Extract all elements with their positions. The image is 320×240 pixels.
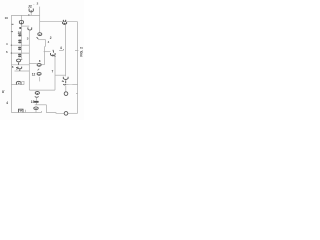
- transistor Q3 mid right: [51, 50, 56, 56]
- mirror cup inner dot: [18, 83, 19, 84]
- svg-text:´: ´: [33, 3, 34, 7]
- wire V4 column: [20, 15, 22, 58]
- diode cup x36 y108.3: [34, 107, 38, 110]
- tick on W1 x28.7: [28, 14, 29, 16]
- wire stub x25.5: [25, 110, 27, 113]
- wire W15 faint middle: [69, 83, 73, 85]
- terminal T1 circle: [64, 92, 68, 96]
- wire J2 stem: [30, 12, 32, 15]
- wire W11: [11, 44, 29, 46]
- wire bottom left rail: [11, 112, 41, 114]
- transistor mirror cup x18.7 y82.6: [16, 81, 21, 84]
- tick on rail y31.5: [11, 31, 13, 32]
- wire V8: [54, 57, 56, 91]
- wire W15 left segment: [66, 83, 69, 85]
- wire W14 collector link: [41, 64, 44, 66]
- transistor circle Q top center x39.8 y34.5: [38, 33, 42, 36]
- label mark near Q4b emitter: [62, 81, 64, 82]
- label tick right of cup1 top: [21, 59, 22, 60]
- wire annotation tick crossing V2 at y50.5: [75, 50, 78, 52]
- transistor cup2 left x19.8 y68.3: [18, 67, 22, 71]
- wire V3: [65, 25, 67, 76]
- wire W8: [55, 74, 66, 76]
- Q5 inner dot: [37, 93, 38, 94]
- transistor Q3 inner dot: [52, 54, 53, 55]
- junction dot near Q3 arrow: [63, 49, 64, 50]
- wire diode stem bottom: [35, 110, 37, 113]
- wire bottom rail end hook: [41, 111, 43, 113]
- wire W13: [29, 62, 37, 64]
- wire Q5 emitter stem: [36, 98, 38, 101]
- transistor Q stack upper x39 y65.5: [37, 63, 41, 66]
- wire W10: [15, 70, 30, 72]
- terminal T2 circle: [64, 112, 68, 116]
- Q stack upper inner dot: [39, 65, 40, 66]
- Q x21 inner dot: [21, 22, 22, 23]
- transistor circle Q5 x37.2 y94.5: [35, 92, 40, 98]
- svg-text:J2: J2: [28, 4, 32, 8]
- wire stub on V2 at y93.5: [76, 93, 78, 95]
- svg-text:2: 2: [50, 36, 52, 40]
- wire upper rail to right: [40, 21, 78, 23]
- diode blob x19.6 y47.5: [18, 47, 21, 49]
- diode blob x19.8 y41.3 lower: [18, 42, 21, 44]
- Q top center inner dot: [39, 34, 40, 35]
- wire W18 bottom right: [68, 112, 78, 114]
- wire W6: [11, 84, 24, 86]
- junction dot rail W12: [11, 52, 12, 53]
- diode blob x19.6 y54.5: [18, 54, 21, 56]
- diode blob x19.6 y56.3: [18, 56, 21, 58]
- wire W15 right segment: [72, 83, 77, 85]
- junction dot rail W11: [11, 45, 12, 46]
- diode blob x19.6 y49.2: [18, 49, 21, 51]
- svg-text:8´: 8´: [2, 90, 5, 94]
- wire stub right of Q3: [59, 50, 63, 52]
- wire W17 bottom center: [46, 112, 64, 115]
- wire V6 center top vertical: [39, 7, 41, 33]
- wire W6 corner up: [22, 81, 25, 84]
- transistor Q4b circle right x65.8 y78.5: [62, 77, 68, 83]
- capacitor bar under Q5: [34, 101, 39, 103]
- transistor Q at x21 y22.2: [19, 20, 23, 24]
- wire top rail: [11, 14, 39, 16]
- transistor circle Q4 top right on W3: [63, 20, 67, 25]
- svg-text:4: 4: [6, 101, 8, 105]
- Q stack lower inner dot: [39, 74, 40, 75]
- wire W12: [11, 52, 29, 54]
- wire terminal 1 stem: [65, 86, 67, 92]
- transistor cup1 left x18.6 y61: [17, 59, 21, 65]
- junction blob under Q4b: [63, 83, 66, 86]
- wire V7: [44, 40, 45, 65]
- wire W7: [29, 89, 55, 91]
- transistor J2 symbol top left: [29, 9, 33, 13]
- wire W9: [11, 64, 29, 66]
- source bump on bottom rail: [19, 109, 24, 112]
- svg-text:4: 4: [60, 46, 62, 50]
- svg-text:10: 10: [5, 16, 9, 20]
- wire V5: [28, 31, 30, 90]
- emitter mark between stack transistors: [38, 69, 40, 71]
- svg-text:5: 5: [16, 66, 18, 70]
- wire V9 corner down: [45, 105, 47, 113]
- transistor Q stack lower x39 y74.5: [37, 72, 41, 75]
- svg-text:12: 12: [32, 72, 36, 76]
- wire left rail: [10, 15, 12, 112]
- transistor Q4 inner dot: [64, 23, 65, 24]
- svg-text:7: 7: [52, 69, 54, 73]
- tick on rail y24: [12, 24, 14, 25]
- svg-text:FIG. 2: FIG. 2: [80, 47, 84, 57]
- emitter mark Q top center: [37, 37, 39, 39]
- diode blob x19.8 y41.3 upper: [18, 40, 21, 42]
- wire right rail: [77, 22, 79, 114]
- wire stem to W16: [36, 103, 38, 105]
- svg-text:18: 18: [18, 31, 22, 35]
- junction blob V8 top: [54, 56, 55, 57]
- transistor cup on W2 at x29.7: [28, 27, 32, 30]
- diode blob x19.8 y35.2: [18, 34, 21, 36]
- wire W5: [44, 51, 51, 53]
- svg-text:15: 15: [31, 100, 35, 104]
- label blob x20 y28: [19, 27, 21, 29]
- diode inner dot: [35, 108, 36, 109]
- wire W2: [21, 25, 29, 27]
- wire Q2 emitter stub: [39, 77, 41, 81]
- transistor J2 inner dot: [31, 10, 32, 11]
- wire W16: [35, 104, 47, 106]
- wire W4: [38, 39, 46, 41]
